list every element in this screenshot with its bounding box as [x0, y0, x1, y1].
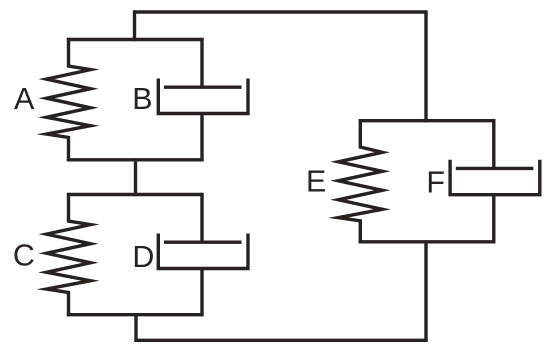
wire left top drop — [133, 12, 136, 41]
box CD top edge — [67, 193, 204, 196]
dashpot B bottom rod — [200, 114, 203, 162]
svg-text:F: F — [426, 165, 445, 199]
dashpot F piston plate — [456, 167, 534, 170]
svg-text:B: B — [132, 82, 152, 116]
box EF bottom edge — [359, 240, 496, 243]
dashpot B piston rod (top) — [200, 38, 203, 87]
dashpot D bottom rod — [200, 269, 203, 317]
svg-text:A: A — [14, 82, 35, 116]
wire top rail — [133, 10, 428, 13]
box CD bottom edge — [67, 313, 204, 316]
svg-text:E: E — [306, 165, 326, 199]
box AB bottom edge — [67, 158, 204, 161]
dashpot D cylinder cup — [158, 234, 248, 269]
wire bottom rail — [134, 339, 427, 342]
svg-text:D: D — [132, 240, 154, 274]
dashpot B cylinder cup — [158, 79, 248, 114]
dashpot B piston plate — [164, 85, 242, 88]
dashpot D piston rod (top) — [200, 193, 203, 242]
dashpot D piston plate — [164, 240, 242, 243]
wire right drop to EF box — [424, 12, 427, 122]
wire right bottom drop from EF box — [424, 240, 427, 342]
dashpot F piston rod (top) — [492, 119, 495, 168]
spring E (left edge of EF box) — [338, 119, 382, 243]
svg-text:C: C — [13, 238, 35, 272]
spring A (left edge of AB box) — [47, 38, 91, 161]
spring C (left edge of CD box) — [47, 193, 91, 316]
box EF top edge — [359, 119, 496, 122]
dashpot F bottom rod — [492, 195, 495, 244]
box AB top edge — [67, 38, 204, 41]
dashpot F cylinder cup — [450, 160, 540, 195]
wire series connector AB to CD — [134, 158, 137, 196]
wire bottom drop from CD box — [134, 313, 137, 342]
